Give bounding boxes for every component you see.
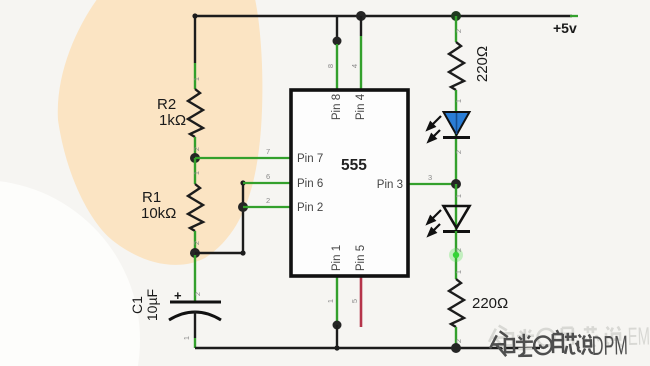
wire C1 bottom black bbox=[194, 311, 196, 338]
wire pin8 green bbox=[336, 44, 338, 91]
svg-text:7: 7 bbox=[266, 147, 270, 156]
svg-text:10kΩ: 10kΩ bbox=[141, 205, 176, 222]
svg-text:Pin 6: Pin 6 bbox=[297, 178, 323, 190]
wire R1 top green bbox=[194, 158, 196, 184]
wire R3 bottom green bbox=[455, 90, 457, 112]
node R4 on rail bbox=[451, 343, 461, 353]
node pin1 on rail bbox=[334, 345, 339, 350]
svg-text:Pin 4: Pin 4 bbox=[355, 93, 367, 120]
svg-text:1: 1 bbox=[192, 171, 201, 175]
wire pin3 green bbox=[408, 183, 456, 185]
svg-text:1: 1 bbox=[454, 270, 463, 274]
node R1/C1 junction bbox=[190, 248, 200, 258]
wire C1 bottom green bbox=[194, 338, 196, 348]
wire through LED1 green bbox=[455, 112, 457, 184]
wire R4 bottom green bbox=[455, 327, 457, 348]
wire pin6 green bbox=[243, 182, 291, 184]
svg-text:1: 1 bbox=[326, 299, 335, 303]
wire pin7 green bbox=[195, 157, 291, 159]
LED D2 arrow 2 bbox=[433, 224, 440, 231]
LED D2 triangle outline bbox=[444, 206, 470, 228]
wire vertical pin6/pin2 column bbox=[242, 183, 244, 253]
node pin1 joint bbox=[333, 321, 342, 330]
watermark dark pseudo-CJK zhihu bbox=[490, 329, 594, 356]
svg-text:1: 1 bbox=[192, 77, 201, 81]
svg-text:6: 6 bbox=[266, 172, 270, 181]
svg-text:3: 3 bbox=[428, 173, 432, 182]
wire pin8 column black bbox=[336, 16, 338, 39]
svg-text:2: 2 bbox=[454, 248, 463, 252]
wire R1 bottom green bbox=[194, 231, 196, 253]
svg-text:4: 4 bbox=[350, 64, 359, 68]
svg-text:Pin 7: Pin 7 bbox=[297, 153, 323, 165]
light zi bbox=[562, 328, 573, 345]
svg-text:R1: R1 bbox=[142, 189, 161, 206]
wire LED2 to R4 green bbox=[455, 231, 457, 279]
wire LED2 top green bbox=[455, 184, 457, 231]
LED D1 inner wire line bbox=[456, 113, 458, 134]
node pin2 junction bbox=[238, 202, 248, 212]
dark at bbox=[534, 336, 552, 354]
wire R3 top green bbox=[455, 16, 457, 42]
svg-text:Pin 3: Pin 3 bbox=[377, 179, 403, 191]
wire top rail green tip bbox=[570, 15, 578, 17]
LED D1 blue triangle bbox=[444, 112, 470, 135]
LED D1 arrow 2 bbox=[433, 130, 440, 137]
light hu bbox=[517, 329, 535, 349]
node right column top on rail bbox=[451, 11, 461, 21]
wire top rail black bbox=[195, 15, 572, 17]
LED D1 cathode bar bbox=[443, 136, 470, 139]
light zhi bbox=[489, 325, 514, 350]
svg-text:2: 2 bbox=[192, 147, 201, 151]
dark zi bbox=[553, 330, 563, 353]
svg-text:2: 2 bbox=[193, 292, 202, 296]
dark zhi bbox=[490, 331, 515, 356]
node small at 243,183 bbox=[240, 180, 245, 185]
resistor R2 bbox=[188, 89, 203, 137]
svg-text:5: 5 bbox=[350, 299, 359, 303]
svg-text:DPM: DPM bbox=[591, 330, 628, 361]
wire pin4 black bbox=[360, 16, 362, 36]
svg-text:R2: R2 bbox=[157, 96, 176, 113]
svg-text:2: 2 bbox=[192, 241, 201, 245]
LED D2 arrow 1 bbox=[428, 210, 442, 236]
svg-text:1: 1 bbox=[454, 99, 463, 103]
op-amp U1 555 chip body bbox=[291, 90, 408, 276]
svg-text:+5v: +5v bbox=[553, 20, 577, 36]
resistor R1 bbox=[188, 184, 203, 231]
wire pin4 green bbox=[360, 36, 362, 91]
wire pin2 green bbox=[243, 206, 291, 208]
peach blob bbox=[58, 0, 263, 265]
svg-text:Pin 8: Pin 8 bbox=[331, 94, 343, 120]
dark xin bbox=[565, 333, 579, 354]
light at bbox=[537, 329, 554, 346]
svg-text:Pin 5: Pin 5 bbox=[355, 245, 367, 271]
light shuo bbox=[606, 326, 623, 347]
dark hu bbox=[516, 334, 533, 356]
resistor R3 220 bbox=[449, 42, 464, 90]
svg-text:1kΩ: 1kΩ bbox=[159, 112, 186, 129]
svg-text:220Ω: 220Ω bbox=[474, 46, 491, 82]
node R2/R1/Pin7 junction bbox=[190, 153, 200, 163]
svg-text:220Ω: 220Ω bbox=[472, 295, 508, 312]
svg-text:10µF: 10µF bbox=[144, 289, 160, 321]
svg-text:Pin 2: Pin 2 bbox=[297, 202, 323, 214]
svg-text:2: 2 bbox=[454, 150, 463, 154]
node pin3/LED junction bbox=[451, 179, 461, 189]
white bite circle bbox=[0, 180, 140, 366]
svg-text:1: 1 bbox=[182, 336, 191, 340]
node pin4 on rail bbox=[356, 11, 366, 21]
wire pin1 black bbox=[336, 325, 338, 348]
node small at 243,253 bbox=[240, 250, 245, 255]
LED D2 cathode bar bbox=[443, 230, 470, 233]
capacitor C1 plate bottom arc bbox=[169, 312, 221, 320]
capacitor C1 plate top bbox=[170, 301, 221, 304]
wire pin1 green bbox=[336, 275, 338, 323]
svg-text:2: 2 bbox=[454, 339, 463, 343]
svg-text:Pin 1: Pin 1 bbox=[331, 245, 343, 271]
node pin8 joint bbox=[333, 37, 342, 46]
node green glow at LED2-R4 bbox=[449, 248, 463, 262]
svg-text:EMA: EMA bbox=[627, 322, 650, 351]
LED D1 arrow 1 bbox=[428, 116, 442, 142]
svg-text:2: 2 bbox=[454, 29, 463, 33]
wire bottom rail bbox=[195, 347, 540, 349]
wire R2 top green bbox=[194, 63, 196, 89]
svg-text:1: 1 bbox=[454, 194, 463, 198]
wire junction to pin2 column bbox=[195, 252, 243, 254]
wire R2 bottom green bbox=[194, 137, 196, 158]
svg-text:+: + bbox=[174, 288, 182, 303]
node top-left corner bbox=[192, 13, 197, 18]
svg-text:555: 555 bbox=[341, 157, 367, 174]
watermark light gray pseudo-CJK bbox=[489, 322, 623, 350]
light xin bbox=[584, 326, 600, 346]
wire R2 top black bbox=[194, 15, 196, 63]
wire pin5 red bbox=[360, 275, 363, 327]
svg-text:8: 8 bbox=[326, 64, 335, 68]
svg-text:C1: C1 bbox=[129, 296, 145, 314]
wire C1 top green bbox=[194, 255, 196, 302]
resistor R4 220 bbox=[449, 279, 464, 327]
svg-text:2: 2 bbox=[266, 196, 270, 205]
dark shuo bbox=[578, 334, 593, 354]
